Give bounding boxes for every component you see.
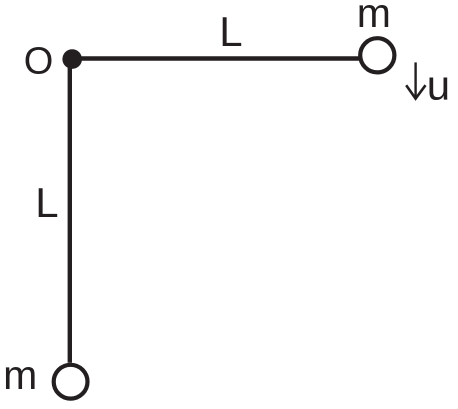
svg-text:L: L: [35, 179, 58, 226]
svg-text:u: u: [427, 61, 450, 108]
rod horizontal OL: [71, 56, 359, 60]
svg-text:L: L: [219, 8, 242, 55]
svg-text:m: m: [357, 0, 391, 36]
svg-text:m: m: [3, 352, 37, 398]
pivot dot O: [62, 49, 82, 69]
svg-text:O: O: [24, 40, 54, 82]
mass m top-right circle: [360, 38, 394, 72]
mass m bottom circle: [54, 365, 88, 399]
velocity arrow down: [414, 62, 416, 97]
rod vertical OL: [68, 58, 72, 363]
